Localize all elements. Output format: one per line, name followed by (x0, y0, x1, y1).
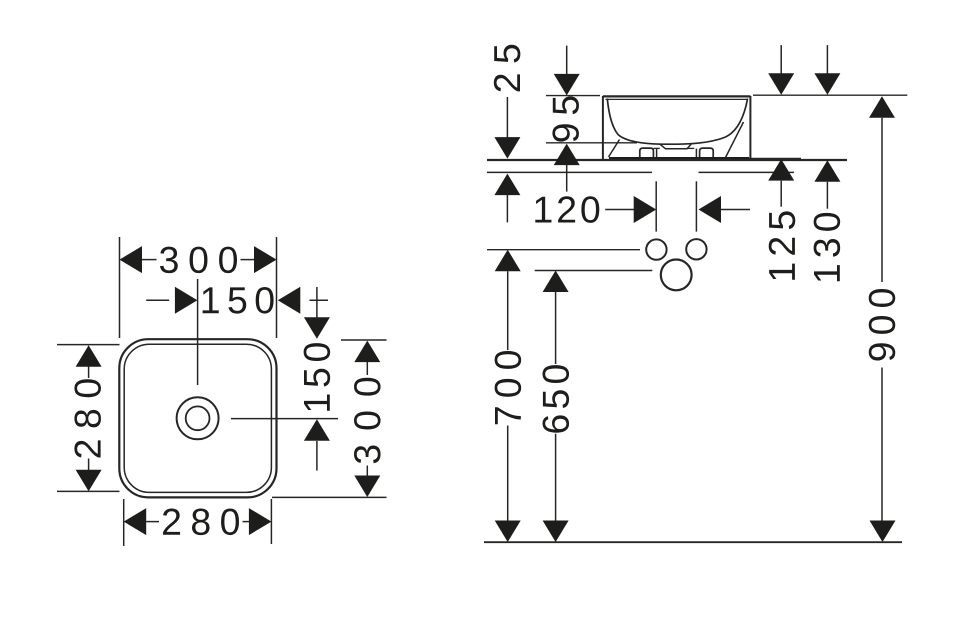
dimension 900: label (869, 289, 896, 361)
dimension 300 right: extension lines (341, 339, 387, 341)
dimension 150 top: outside arrow right of extension line (278, 287, 328, 314)
dimension 300 top: dimension line and arrows (120, 246, 277, 273)
dimension 150 top: leader, arrow at center line (146, 287, 197, 314)
faucet hole circle left (646, 239, 666, 259)
dimension 300 right: label (354, 378, 381, 464)
side view: basin top extension line left (546, 95, 600, 97)
dimension 700: label (495, 351, 522, 424)
dimension 120: left leader and arrow (605, 196, 656, 223)
dimension 280 left: extension lines (57, 344, 120, 346)
dimension 650: reference line at drain height (535, 270, 653, 272)
dimension 700: shaft with arrows (495, 250, 521, 542)
dimension 25 (counter thickness): label (494, 45, 521, 92)
side view: right underside taper line (726, 122, 744, 158)
dimension 900: shaft with arrows (869, 96, 896, 542)
side view: basin top edge (603, 95, 751, 97)
dimension 300 top: extension lines (119, 237, 121, 338)
side view: bowl interior curve (607, 99, 747, 145)
side view: central drain boss trapezoid (660, 144, 692, 149)
dimension 280 left: label (74, 379, 101, 457)
side view: black gasket strip under basin (609, 157, 749, 161)
dimension 130: top shaft and arrow (814, 45, 840, 95)
dimension 95 (bowl depth): top shaft and arrow (554, 46, 580, 96)
dimension 125: label (769, 211, 796, 279)
dimension 95: depth reference line (546, 142, 637, 144)
dimension 650: shaft with arrows (543, 271, 569, 543)
dimension 280 bottom: label (163, 509, 239, 536)
dimension 120 (hole spacing): label (535, 196, 599, 223)
left view: drain inner circle (186, 406, 210, 430)
dimension 280 bottom: extension lines (123, 499, 125, 546)
side view: countertop bottom line left segment (487, 171, 652, 173)
left view: washbasin inner rim square (124, 344, 271, 492)
dimension 150 right: label (304, 343, 331, 411)
side view: connector lines feet to boss (653, 147, 659, 149)
floor reference line (484, 541, 902, 543)
dimension 120: right arrow and leader (699, 196, 751, 223)
side view: basin base extension line right (749, 157, 801, 159)
faucet hole circle right (686, 239, 706, 259)
dimension 120: extension line over right hole (695, 181, 697, 231)
side view: right mounting foot (700, 148, 714, 157)
dimension 25: shaft and outside arrows (494, 97, 520, 222)
side view: basin inner rim line (606, 98, 749, 100)
side view: left underside taper line (609, 140, 620, 158)
dimension 125: bottom arrow and shaft (768, 159, 794, 207)
dimension 300 top: label (160, 247, 237, 274)
dimension 130: bottom arrow and shaft (814, 160, 840, 209)
left view: drain leader line to right (231, 418, 338, 420)
side view: countertop bottom line right segment (699, 171, 795, 173)
dimension 280 left: dimension line with arrows (76, 345, 102, 491)
dimension 120: extension line over left hole (655, 181, 657, 231)
side view: basin top extension line right (753, 94, 907, 96)
side view: left mounting foot (640, 148, 654, 157)
dimension 280 bottom: dimension line with arrows (124, 508, 272, 535)
dimension 150 top: label (203, 287, 274, 314)
left view: drain outer circle (177, 397, 219, 439)
left view: vertical center line (197, 279, 199, 385)
dimension 130: label (814, 213, 841, 281)
dimension 150 right (square): shaft and outside arrows (304, 287, 330, 471)
dimension 95: label (552, 96, 579, 141)
dimension 650: label (543, 365, 570, 433)
side view: basin left outer edge (602, 96, 604, 160)
drain hole circle large (661, 260, 692, 291)
dimension 700: reference line at faucet height (487, 249, 640, 251)
side view: basin right outer edge (749, 96, 751, 158)
dimension 95: bottom arrow and shaft (554, 144, 580, 192)
side view: countertop top surface line (487, 159, 847, 161)
dimension 300 right: dimension line with arrows (354, 341, 380, 497)
left view: washbasin outer square outline (119, 339, 276, 497)
dimension 125: top shaft and arrow (768, 45, 794, 95)
